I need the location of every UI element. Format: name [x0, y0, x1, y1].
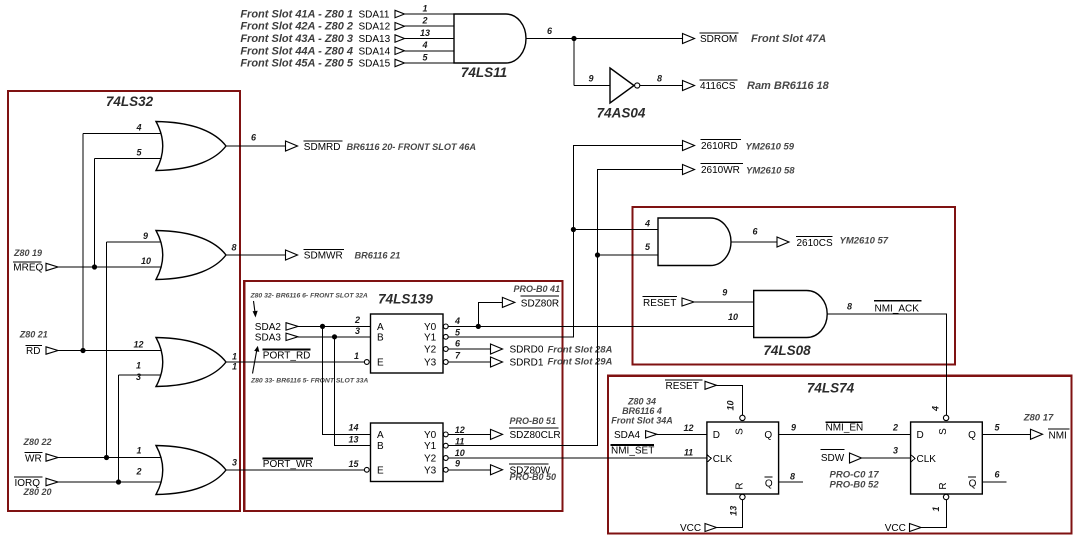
svg-text:10: 10: [455, 448, 465, 458]
svg-text:PRO-C0 17: PRO-C0 17: [830, 469, 880, 480]
svg-text:4: 4: [454, 316, 460, 326]
svg-text:PORT_RD: PORT_RD: [263, 350, 311, 361]
wire Y0 to 74LS08 pin10: [448, 325, 754, 327]
svg-text:BR6116 20- FRONT SLOT 46A: BR6116 20- FRONT SLOT 46A: [347, 142, 477, 152]
input port SDA4: [614, 430, 657, 441]
svg-text:Front Slot 43A - Z80 3: Front Slot 43A - Z80 3: [240, 33, 353, 45]
svg-text:Z80 34: Z80 34: [627, 397, 656, 407]
output port SDMWR: [286, 249, 401, 261]
svg-text:SDA13: SDA13: [359, 34, 391, 45]
svg-text:1: 1: [136, 361, 141, 371]
wire: [574, 85, 610, 87]
output port SDMRD: [286, 141, 477, 153]
svg-text:1: 1: [354, 351, 359, 361]
svg-text:E: E: [377, 465, 384, 476]
wire gate1 pin4: [83, 133, 166, 135]
svg-text:Z80 33- BR6116 5- FRONT SLOT 3: Z80 33- BR6116 5- FRONT SLOT 33A: [250, 378, 368, 385]
wire net PORT_WR: [226, 469, 364, 471]
svg-text:Front Slot 34A: Front Slot 34A: [611, 416, 673, 426]
svg-text:E: E: [377, 358, 384, 369]
svg-text:4: 4: [135, 123, 141, 133]
svg-text:15: 15: [348, 459, 359, 469]
arrow to SDA2: [253, 301, 258, 318]
wire to 74LS08 pin4: [573, 229, 658, 231]
net label PORT_WR: [262, 458, 313, 470]
svg-text:A: A: [377, 430, 384, 441]
output port SDZ80W: [491, 464, 557, 482]
svg-text:Y2: Y2: [424, 454, 437, 465]
svg-text:4: 4: [931, 406, 941, 412]
output port SDZ80R: [502, 284, 560, 310]
svg-text:SDROM: SDROM: [700, 34, 737, 45]
svg-text:2610RD: 2610RD: [701, 141, 738, 152]
svg-text:9: 9: [455, 459, 460, 469]
svg-text:Y1: Y1: [424, 441, 437, 452]
svg-text:3: 3: [355, 326, 360, 336]
wire Y0 to SDZ80CLR: [448, 433, 490, 435]
svg-text:SDMWR: SDMWR: [304, 251, 343, 262]
svg-text:Z80 20: Z80 20: [22, 487, 51, 497]
svg-text:Y2: Y2: [424, 345, 437, 356]
svg-text:13: 13: [348, 435, 358, 445]
svg-text:8: 8: [790, 472, 795, 482]
svg-text:RD: RD: [26, 346, 40, 357]
svg-text:11: 11: [455, 436, 464, 446]
arrow to PORT_RD: [253, 346, 260, 374]
wire Y2 to NMI_SET CLK: [448, 457, 707, 459]
input port SDW: [820, 450, 861, 464]
decoder 74LS139 first half: [364, 314, 448, 373]
wire: [405, 50, 455, 52]
svg-text:Front Slot 45A - Z80 5: Front Slot 45A - Z80 5: [240, 58, 354, 70]
svg-text:S: S: [734, 428, 745, 435]
wire net NMI_ACK: [828, 314, 947, 415]
net label PORT_RD: [262, 350, 310, 362]
wire VCC to FF2 R: [921, 500, 946, 528]
svg-text:NMI_ACK: NMI_ACK: [875, 304, 920, 315]
wire net 4116CS: [640, 85, 683, 87]
junction RD: [80, 348, 85, 353]
svg-text:NMI_SET: NMI_SET: [611, 446, 654, 457]
wire SDW to FF2 CLK: [862, 457, 911, 459]
wire to SDZ80R: [478, 302, 502, 326]
wire SDA2 to decoder2 A: [323, 326, 371, 434]
svg-text:12: 12: [455, 425, 465, 435]
net label NMI_ACK: [874, 301, 922, 315]
svg-text:13: 13: [729, 506, 739, 516]
svg-text:SDA3: SDA3: [255, 332, 282, 343]
junction 2610RD net: [571, 227, 576, 232]
OR gate 74LS32B: [156, 231, 226, 280]
AND gate 74LS08B: [754, 291, 828, 338]
svg-text:S: S: [938, 428, 949, 435]
input port SDA14: [240, 45, 404, 57]
svg-text:11: 11: [684, 447, 693, 457]
wire gate3 input: [119, 374, 167, 376]
wire Y2 to SDRD0: [448, 348, 490, 350]
wire RESET to FF1 S: [717, 385, 743, 415]
svg-text:CLK: CLK: [917, 454, 937, 465]
output port SDRD1: [491, 357, 613, 369]
svg-text:PRO-B0 52: PRO-B0 52: [830, 480, 880, 491]
power port VCC (FF1): [680, 523, 717, 534]
inverter 74AS04: [610, 68, 634, 103]
svg-text:9: 9: [791, 423, 796, 433]
svg-text:Z80 21: Z80 21: [19, 329, 48, 339]
svg-text:Y3: Y3: [424, 358, 437, 369]
svg-text:SDA11: SDA11: [359, 10, 390, 21]
svg-text:Y0: Y0: [424, 430, 437, 441]
svg-text:YM2610 57: YM2610 57: [840, 236, 889, 247]
svg-text:8: 8: [231, 243, 236, 253]
svg-text:RESET: RESET: [643, 298, 676, 309]
svg-text:Front Slot 41A - Z80 1: Front Slot 41A - Z80 1: [240, 9, 353, 21]
svg-text:Front Slot 47A: Front Slot 47A: [751, 33, 826, 45]
wire SDA3 to decoder2 B: [335, 337, 371, 446]
IC box 74LS74: [608, 376, 1072, 534]
svg-text:Z80 17: Z80 17: [1023, 413, 1054, 424]
wire VCC to FF1 R: [717, 500, 743, 528]
wire: [405, 13, 455, 15]
svg-text:2: 2: [354, 315, 360, 325]
wire: [405, 38, 455, 40]
svg-text:3: 3: [136, 372, 141, 382]
wire: [405, 25, 455, 27]
svg-text:Front Slot 44A - Z80 4: Front Slot 44A - Z80 4: [240, 45, 353, 57]
svg-text:Y1: Y1: [424, 332, 437, 343]
svg-text:12: 12: [133, 340, 143, 350]
svg-text:14: 14: [348, 423, 358, 433]
svg-text:10: 10: [726, 400, 736, 410]
svg-text:74LS08: 74LS08: [763, 343, 811, 358]
wire net SDROM: [526, 38, 683, 40]
junction MREQ: [92, 264, 97, 269]
svg-text:3: 3: [893, 445, 898, 455]
svg-text:Z80 32- BR6116 6- FRONT SLOT 3: Z80 32- BR6116 6- FRONT SLOT 32A: [250, 293, 368, 300]
svg-text:PRO-B0 41: PRO-B0 41: [513, 284, 560, 294]
svg-text:74LS139: 74LS139: [378, 292, 433, 307]
wire net SDMWR: [226, 254, 286, 256]
wire vertical MREQ feed: [94, 159, 96, 268]
IC box 74LS139: [244, 281, 562, 511]
svg-text:Q: Q: [764, 430, 772, 441]
svg-text:YM2610 59: YM2610 59: [746, 141, 795, 152]
wire FF2 Qbar stub: [982, 481, 1006, 483]
junction WR: [104, 455, 109, 460]
decoder 74LS139 second half: [364, 423, 448, 482]
wire: [405, 62, 455, 64]
wire net IORQ: [58, 481, 166, 483]
svg-text:SDRD1: SDRD1: [510, 358, 544, 369]
wire RESET to pin9: [694, 301, 754, 303]
svg-text:NMI: NMI: [1049, 430, 1067, 441]
wire vertical RD feed: [82, 134, 84, 351]
wire net SDMRD: [226, 145, 286, 147]
wire FF1 Qbar stub: [779, 481, 803, 483]
input port SDA12: [240, 21, 404, 33]
svg-text:RESET: RESET: [666, 381, 699, 392]
svg-text:R: R: [938, 482, 949, 489]
svg-text:D: D: [917, 430, 924, 441]
svg-text:CLK: CLK: [713, 454, 733, 465]
svg-text:SDZ80R: SDZ80R: [521, 299, 559, 310]
input port IORQ: [14, 477, 58, 497]
svg-text:Front Slot 28A: Front Slot 28A: [548, 344, 613, 355]
svg-text:1: 1: [422, 3, 427, 13]
OR gate 74LS32A: [156, 122, 226, 171]
IC box 74LS32: [8, 91, 240, 511]
note PRO-C0 17 / PRO-B0 52: [830, 469, 880, 490]
wire SDA3 to B: [298, 336, 371, 338]
power port VCC (FF2): [885, 523, 921, 534]
svg-text:4: 4: [421, 40, 427, 50]
junction Y0: [476, 324, 481, 329]
svg-text:SDW: SDW: [821, 453, 845, 464]
input port RESET (74LS08): [643, 296, 695, 309]
svg-text:SDA15: SDA15: [359, 59, 391, 70]
input port WR: [22, 437, 58, 464]
output port SDZ80CLR: [491, 416, 561, 441]
svg-text:WR: WR: [25, 453, 42, 464]
svg-text:PRO-B0 50: PRO-B0 50: [510, 472, 557, 482]
svg-text:10: 10: [141, 256, 151, 266]
svg-text:BR6116 21: BR6116 21: [355, 251, 401, 261]
wire net NMI: [982, 433, 1030, 435]
svg-text:SDA4: SDA4: [614, 430, 641, 441]
junction SDA3: [332, 334, 337, 339]
net label NMI_SET: [611, 445, 655, 457]
svg-text:Front Slot 29A: Front Slot 29A: [548, 357, 613, 368]
svg-text:VCC: VCC: [885, 523, 906, 534]
junction: [571, 36, 576, 41]
output port SDROM: [683, 33, 827, 45]
input port SDA2: [255, 322, 298, 333]
wire: [573, 39, 575, 86]
svg-text:3: 3: [232, 457, 237, 467]
note Z80 34 / BR6116 4 / Front Slot 34A: [611, 397, 673, 426]
junction SDA2: [320, 324, 325, 329]
svg-text:4: 4: [644, 219, 650, 229]
svg-text:Z80 19: Z80 19: [13, 248, 42, 258]
svg-text:74AS04: 74AS04: [597, 106, 646, 121]
svg-text:Ram BR6116 18: Ram BR6116 18: [747, 80, 830, 92]
flip-flop U74A: [707, 415, 779, 500]
wire gate2 pin9: [107, 241, 167, 243]
svg-text:4116CS: 4116CS: [700, 81, 736, 92]
junction 2610WR net: [595, 252, 600, 257]
svg-text:2: 2: [421, 16, 427, 26]
output port SDRD0: [491, 344, 613, 356]
svg-text:1: 1: [232, 362, 237, 372]
output port NMI: [1023, 413, 1070, 442]
svg-text:Q: Q: [968, 430, 976, 441]
wire gate1 pin5: [95, 158, 167, 160]
svg-text:SDRD0: SDRD0: [510, 345, 544, 356]
svg-text:1: 1: [232, 351, 237, 361]
svg-text:PRO-B0 51: PRO-B0 51: [510, 416, 557, 426]
OR gate 74LS32C: [156, 338, 226, 387]
svg-text:BR6116 4: BR6116 4: [622, 406, 662, 416]
IC box 74LS08: [633, 207, 956, 365]
svg-text:Q: Q: [765, 479, 773, 490]
output port 2610RD: [683, 140, 795, 153]
svg-text:SDMRD: SDMRD: [304, 142, 341, 153]
wire vertical WR feed: [106, 242, 108, 458]
svg-text:74LS11: 74LS11: [461, 65, 507, 80]
svg-text:9: 9: [143, 231, 148, 241]
3-input AND gate 74LS11: [454, 14, 526, 63]
wire net WR: [58, 457, 166, 459]
wire Y1 to 2610WR: [448, 170, 682, 446]
wire net RD: [58, 350, 166, 352]
wire net PORT_RD: [226, 361, 364, 363]
wire Y1 to 2610RD: [448, 146, 682, 337]
svg-text:9: 9: [722, 288, 727, 298]
svg-text:2610CS: 2610CS: [797, 238, 833, 249]
svg-text:SDA14: SDA14: [359, 46, 391, 57]
output port 2610CS: [777, 236, 889, 250]
svg-text:74LS74: 74LS74: [807, 381, 855, 396]
wire Y3 to SDZ80W: [448, 469, 490, 471]
wire Y3 to SDRD1: [448, 361, 490, 363]
wire vertical IORQ feed: [118, 375, 120, 482]
svg-text:8: 8: [847, 302, 852, 312]
svg-text:1: 1: [136, 445, 141, 455]
wire to 74LS08 pin5: [598, 254, 659, 256]
svg-text:Q: Q: [969, 479, 977, 490]
svg-text:B: B: [377, 441, 384, 452]
OR gate 74LS32D: [156, 446, 226, 495]
svg-text:8: 8: [657, 73, 662, 83]
svg-text:MREQ: MREQ: [13, 263, 43, 274]
svg-text:SDA2: SDA2: [255, 322, 282, 333]
svg-text:Front Slot 42A - Z80 2: Front Slot 42A - Z80 2: [240, 21, 353, 33]
output port 2610WR: [683, 164, 796, 177]
input port MREQ: [13, 248, 58, 274]
svg-text:VCC: VCC: [680, 523, 701, 534]
svg-text:9: 9: [588, 73, 593, 83]
wire net MREQ: [58, 266, 166, 268]
svg-text:YM2610 58: YM2610 58: [746, 165, 795, 176]
svg-text:SDA12: SDA12: [359, 22, 391, 33]
svg-text:12: 12: [683, 423, 693, 433]
input port RESET (74LS74): [665, 380, 717, 392]
wire SDA2 to A: [298, 325, 371, 327]
input port RD: [19, 329, 58, 357]
svg-text:74LS32: 74LS32: [106, 94, 154, 109]
junction IORQ: [116, 479, 121, 484]
svg-text:2: 2: [135, 466, 141, 476]
wire SDA4 to D: [657, 433, 707, 435]
svg-text:D: D: [713, 430, 720, 441]
svg-text:SDZ80CLR: SDZ80CLR: [510, 430, 561, 441]
svg-text:B: B: [377, 332, 384, 343]
svg-text:Y3: Y3: [424, 465, 437, 476]
svg-text:10: 10: [728, 312, 738, 322]
wire net NMI_EN: [779, 433, 911, 435]
AND gate 74LS08A: [658, 218, 731, 266]
input port SDA11: [240, 9, 404, 21]
output port 4116CS: [683, 80, 830, 92]
svg-text:13: 13: [420, 28, 430, 38]
svg-text:PORT_WR: PORT_WR: [263, 459, 313, 470]
svg-text:NMI_EN: NMI_EN: [826, 423, 864, 434]
input port SDA3: [255, 332, 298, 343]
wire net 2610CS: [731, 241, 777, 243]
svg-text:R: R: [734, 482, 745, 489]
input port SDA13: [240, 33, 404, 45]
svg-text:2610WR: 2610WR: [701, 165, 740, 176]
input port SDA15: [240, 58, 404, 70]
svg-text:1: 1: [931, 506, 941, 511]
net label NMI_EN: [825, 422, 863, 434]
flip-flop U74B: [911, 415, 983, 500]
svg-text:2: 2: [892, 423, 898, 433]
svg-text:Z80 22: Z80 22: [22, 437, 51, 447]
